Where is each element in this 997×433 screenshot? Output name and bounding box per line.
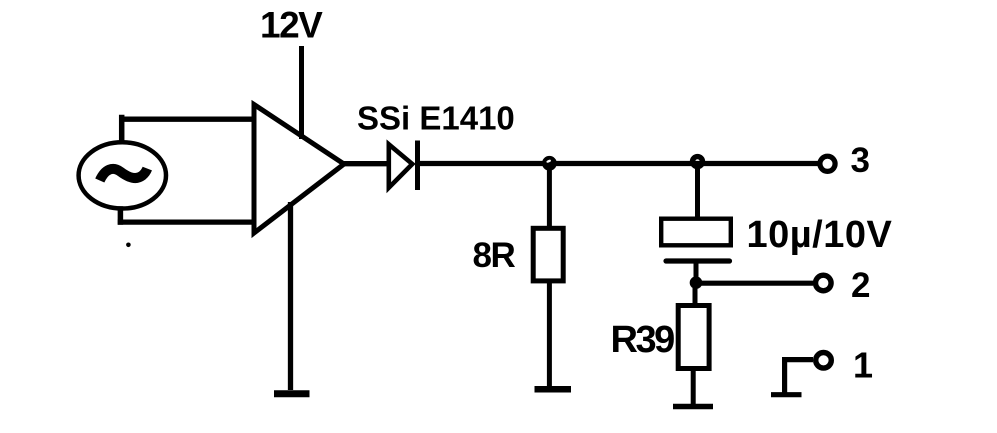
wire R39 to ground [691,368,696,406]
wire bottom loop [118,209,254,222]
ground (8R) [535,386,572,393]
svg-text:10µ/10V: 10µ/10V [747,214,893,256]
terminal 3 [820,156,835,171]
svg-text:12V: 12V [260,4,323,45]
svg-text:8R: 8R [473,236,516,275]
ground (amp) [274,390,310,397]
capacitor C1 top plate [661,219,731,246]
wire diode to terminal 3 [418,161,819,166]
wire top loop [119,118,254,140]
diode D1 [389,141,418,191]
wire junction to 8R [547,164,552,229]
wire apex to diode [342,161,391,166]
wire to terminal 2 [696,281,813,286]
svg-text:R39: R39 [611,319,675,361]
wire capacitor to junction [694,259,699,283]
ground (R39) [673,404,713,410]
ground (terminal 1) [771,392,802,397]
terminal 2 [816,275,832,291]
terminal 1 [816,353,832,369]
stray dot [126,243,131,248]
op-amp U1 [254,105,344,234]
capacitor C1 bottom plate [666,258,730,263]
12V supply wire [299,46,304,139]
wire junction to capacitor [695,162,700,219]
wire amp bottom [288,202,293,390]
svg-text:3: 3 [851,141,870,180]
svg-text:2: 2 [851,266,870,305]
AC source V1 [79,142,166,208]
resistor R39 [678,306,709,369]
junction (cap tap) [693,157,703,167]
svg-text:1: 1 [853,345,873,386]
junction (8R tap) [542,156,557,171]
wire junction to R39 [693,283,698,306]
junction (terminal 2 tap) [690,276,703,289]
svg-text:SSi E1410: SSi E1410 [357,100,515,137]
resistor 8R [533,228,563,281]
wire terminal 1 hook [785,360,813,395]
wire 8R to ground [547,281,552,389]
